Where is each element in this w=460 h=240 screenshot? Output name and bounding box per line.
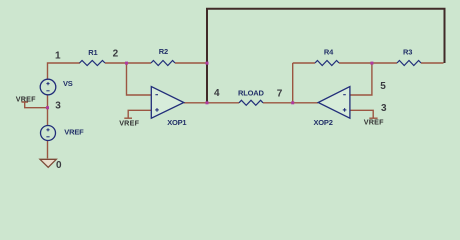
svg-text:4: 4	[214, 88, 220, 99]
svg-text:R1: R1	[88, 48, 97, 57]
svg-text:5: 5	[380, 81, 386, 92]
svg-text:VREF: VREF	[119, 118, 139, 127]
svg-text:R4: R4	[324, 47, 334, 56]
svg-text:VREF: VREF	[16, 94, 36, 103]
svg-text:3: 3	[55, 101, 61, 112]
svg-text:2: 2	[113, 48, 119, 59]
svg-text:XOP1: XOP1	[167, 118, 186, 127]
svg-text:R3: R3	[403, 47, 412, 56]
svg-text:VS: VS	[63, 79, 73, 88]
svg-text:RLOAD: RLOAD	[238, 88, 264, 97]
svg-text:7: 7	[277, 88, 283, 99]
svg-text:XOP2: XOP2	[314, 118, 333, 127]
svg-text:3: 3	[381, 103, 387, 114]
svg-text:R2: R2	[159, 47, 168, 56]
svg-text:1: 1	[55, 51, 61, 62]
svg-text:0: 0	[56, 160, 62, 171]
svg-text:VREF: VREF	[64, 128, 84, 137]
svg-text:VREF: VREF	[364, 118, 384, 127]
